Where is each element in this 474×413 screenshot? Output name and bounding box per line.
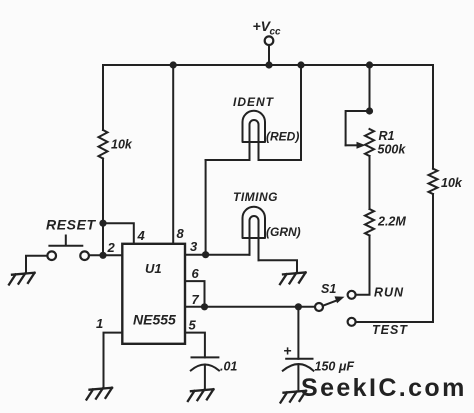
switch S1 RUN contact xyxy=(348,291,356,299)
capacitor 150uF curved plate xyxy=(283,364,314,371)
RESET pushbutton actuator bar xyxy=(49,236,82,246)
svg-text:R1: R1 xyxy=(379,129,395,143)
svg-text:RESET: RESET xyxy=(46,217,97,233)
capacitor .01 curved plate xyxy=(191,365,219,371)
terminal +Vcc circle xyxy=(265,36,274,45)
svg-text:2.2M: 2.2M xyxy=(377,215,406,229)
svg-text:(RED): (RED) xyxy=(266,130,299,144)
junction dot: R1 riser on bus xyxy=(366,61,373,68)
wire: top supply bus xyxy=(103,64,433,66)
svg-text:cc: cc xyxy=(270,27,282,38)
svg-text:6: 6 xyxy=(192,266,200,281)
junction dot: Vcc on bus xyxy=(265,61,272,68)
svg-text:U1: U1 xyxy=(145,261,162,276)
ground (150uF) xyxy=(281,391,307,403)
lamp IDENT filament U with leads xyxy=(250,120,259,160)
junction dot: pin8 riser on bus xyxy=(170,61,177,68)
wire: TIMING left lead to pin3 node xyxy=(206,254,250,256)
svg-text:2: 2 xyxy=(107,240,116,255)
svg-text:10k: 10k xyxy=(441,176,463,190)
wire: 150uF to ground xyxy=(297,365,299,391)
svg-text:3: 3 xyxy=(190,239,198,254)
wire: left vertical from bus to 10k xyxy=(102,65,104,130)
svg-text:+: + xyxy=(284,343,292,359)
wiper arrow of R1 xyxy=(346,144,359,146)
wire: pin 5 from IC to .01 cap xyxy=(185,333,205,358)
wire: R1 riser from bus to wiper loop node xyxy=(369,65,371,111)
svg-text:5: 5 xyxy=(189,318,197,333)
svg-text:TIMING: TIMING xyxy=(233,190,278,204)
junction dot: pin2/RESET node xyxy=(99,252,106,259)
wire: R1 wiper loop xyxy=(346,111,370,145)
svg-text:150 μF: 150 μF xyxy=(315,360,355,374)
wire: TIMING right lead to ground xyxy=(259,260,298,272)
wire: pin 7 from IC to switch common xyxy=(185,306,315,308)
wire: IDENT right horizontal xyxy=(259,159,302,161)
lamp IDENT outer envelope xyxy=(243,111,266,142)
wire: Vcc stub xyxy=(268,45,270,65)
ground (.01) xyxy=(188,389,214,401)
svg-text:IDENT: IDENT xyxy=(233,95,275,109)
wire: pin 2 from RESET node to IC xyxy=(89,254,122,256)
wire: vertical from IDENT left wire down to pin3 node xyxy=(205,160,207,255)
svg-text:500k: 500k xyxy=(378,143,407,157)
lamp TIMING filament U with leads xyxy=(250,216,259,260)
junction dot: pin6/7 node xyxy=(201,303,208,310)
svg-text:.01: .01 xyxy=(220,360,237,374)
wire: pin 4 branch from left vertical xyxy=(103,223,134,244)
wire: 2.2M down to RUN contact xyxy=(356,236,370,295)
resistor 2.2M xyxy=(365,209,374,235)
svg-text:(GRN): (GRN) xyxy=(266,225,301,239)
wire: RESET left contact to ground xyxy=(26,256,47,273)
svg-text:S1: S1 xyxy=(321,282,336,296)
switch S1 blade with arrowhead xyxy=(323,300,338,306)
svg-text:NE555: NE555 xyxy=(133,312,176,328)
svg-text:7: 7 xyxy=(192,292,200,307)
svg-text:RUN: RUN xyxy=(374,286,404,300)
junction dot: pin4 branch xyxy=(99,220,106,227)
lamp TIMING outer envelope xyxy=(243,207,266,238)
junction dot: IDENT riser on bus xyxy=(297,61,304,68)
wire: pin 3 from IC to node xyxy=(185,254,206,256)
ground (TIMING) xyxy=(280,272,306,284)
switch S1 common contact xyxy=(315,303,323,311)
wire: IDENT riser from bus down xyxy=(300,65,302,160)
wire: pin 1 from IC to ground xyxy=(104,333,123,388)
potentiometer R1 500k zigzag xyxy=(365,129,374,156)
svg-text:1: 1 xyxy=(96,316,103,331)
resistor 10k (right) xyxy=(429,169,438,194)
wire: right vertical from 10k to TEST wire xyxy=(356,194,433,322)
svg-text:SeekIC.com: SeekIC.com xyxy=(301,374,467,402)
junction dot: wiper loop top xyxy=(366,107,373,114)
ground (RESET) xyxy=(9,273,35,285)
wire: pin 6 from IC, down to pin7 wire xyxy=(185,281,205,307)
capacitor .01 top plate xyxy=(192,356,219,358)
wire: .01 cap to ground xyxy=(204,365,206,390)
svg-text:10k: 10k xyxy=(111,138,133,152)
svg-text:TEST: TEST xyxy=(372,323,408,337)
wire: pin 8 riser from bus to IC top xyxy=(172,65,174,244)
junction dot: pin3 node xyxy=(202,251,209,258)
capacitor 150uF top plate xyxy=(286,358,312,360)
IC U1 NE555 body xyxy=(122,244,185,344)
wire: IDENT left horizontal xyxy=(206,159,250,161)
switch S1 TEST contact xyxy=(348,318,356,326)
resistor R 10k (left) xyxy=(99,130,108,159)
junction dot: capacitor/switch node xyxy=(295,303,302,310)
svg-text:8: 8 xyxy=(177,226,185,241)
wire: between R1 and 2.2M xyxy=(369,156,371,209)
ground (pin 1) xyxy=(87,388,113,400)
wire: left vertical from 10k down to pin2 node xyxy=(102,159,104,256)
wire: switch node down to 150uF xyxy=(297,307,299,359)
svg-text:4: 4 xyxy=(137,228,146,243)
wire: right vertical from bus to 10k xyxy=(432,65,434,169)
RESET pushbutton contacts xyxy=(47,251,56,260)
label +Vcc xyxy=(253,18,282,38)
